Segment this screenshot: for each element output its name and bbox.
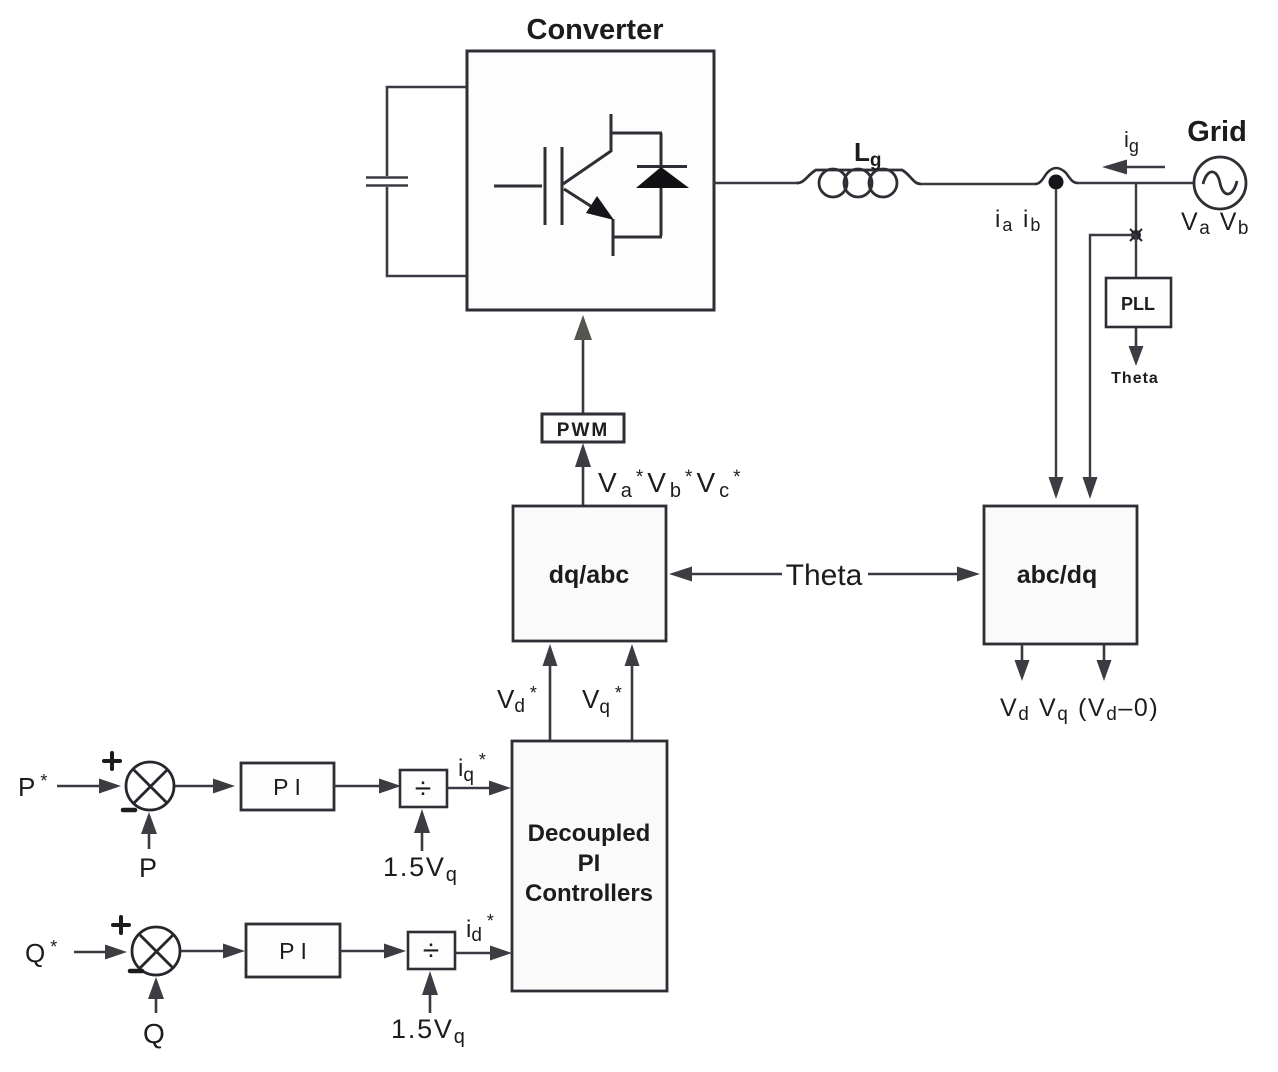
ig current arrow	[1102, 160, 1165, 175]
PWM box	[542, 414, 624, 442]
svg-text:PLL: PLL	[1121, 294, 1155, 314]
PI controller box PI2	[246, 924, 340, 977]
arrow dq/abc to PWM	[575, 443, 591, 506]
svg-text:÷: ÷	[415, 772, 431, 805]
capacitor C1	[366, 87, 466, 276]
feedback arrow Q	[148, 977, 164, 1013]
wire node ia ib down to abc/dq	[1055, 189, 1057, 481]
svg-text:PWM: PWM	[557, 420, 609, 441]
PI controller box PI1	[241, 763, 334, 810]
converter box U1	[467, 51, 714, 310]
svg-text:P I: P I	[279, 938, 307, 964]
arrowhead vab into abc/dq	[1083, 477, 1098, 499]
wire inductor to node	[920, 183, 1036, 185]
wire S1 to PI1	[175, 779, 235, 794]
Theta bus arrowhead right	[957, 567, 980, 582]
wire tap horizontal to measurement	[1090, 235, 1136, 481]
feedback arrow P	[141, 812, 157, 849]
junction node vab tap	[1131, 230, 1141, 240]
svg-text:Theta: Theta	[786, 559, 863, 592]
Decoupled PI Controllers block	[512, 741, 667, 991]
arrow PWM to converter	[574, 315, 592, 414]
wire node to grid	[1078, 182, 1195, 184]
svg-text:Controllers: Controllers	[525, 880, 653, 907]
node dot ia ib	[1049, 175, 1064, 190]
svg-text:Q: Q	[143, 1018, 165, 1049]
plus sign S2	[113, 917, 129, 933]
svg-text:Grid: Grid	[1187, 116, 1247, 148]
summing junction S1	[126, 762, 174, 810]
wire PI1 to divider	[334, 779, 401, 794]
minus sign S1	[123, 808, 135, 813]
wire PI2 to divider	[340, 944, 406, 959]
arrow 1.5Vq into DIV1	[414, 809, 430, 851]
svg-text:P: P	[139, 853, 157, 883]
plus sign S1	[104, 753, 120, 769]
svg-text:dq/abc: dq/abc	[549, 561, 630, 589]
wire Q* to summing junction	[74, 945, 127, 960]
arrow abc/dq output Vq	[1097, 644, 1112, 681]
summing junction S2	[132, 927, 180, 975]
arrow PLL to Theta	[1129, 327, 1144, 366]
wire P* to summing junction	[57, 779, 121, 794]
svg-text:÷: ÷	[423, 934, 439, 967]
wire DIV2 to decoupled block	[455, 946, 512, 961]
svg-text:abc/dq: abc/dq	[1017, 561, 1098, 589]
arrow 1.5Vq into DIV2	[422, 971, 438, 1013]
node junction hop	[1035, 168, 1078, 184]
Theta bus arrowhead left	[669, 567, 692, 582]
svg-text:Theta: Theta	[1111, 370, 1159, 387]
minus sign S2	[130, 969, 142, 974]
svg-text:Decoupled: Decoupled	[528, 820, 651, 847]
wire Vq* into dq/abc	[625, 644, 640, 741]
wire S2 to PI2	[181, 944, 245, 959]
wire tap to PLL	[1135, 235, 1137, 278]
grid source G1	[1194, 157, 1246, 209]
wire converter to inductor	[714, 182, 799, 184]
dq/abc block	[513, 506, 666, 641]
abc/dq block	[984, 506, 1137, 644]
wire Vd* into dq/abc	[543, 644, 558, 741]
inductor Lg	[797, 169, 921, 197]
PLL box	[1106, 278, 1171, 327]
diode D1 triangle	[636, 167, 689, 188]
svg-text:PI: PI	[578, 850, 601, 877]
Theta bus wire	[688, 573, 960, 576]
diode D1	[637, 133, 687, 236]
svg-text:P I: P I	[273, 774, 301, 800]
arrow abc/dq output Vd	[1015, 644, 1030, 681]
transistor Q1 (IGBT)	[494, 114, 662, 256]
emitter arrowhead of Q1	[586, 196, 614, 220]
wire grid tap down	[1135, 183, 1137, 235]
divider box DIV2	[408, 932, 455, 969]
arrowhead ia ib into abc/dq	[1049, 477, 1064, 499]
wire DIV1 to decoupled block	[447, 781, 511, 796]
svg-text:Converter: Converter	[527, 14, 664, 46]
divider box DIV1	[400, 770, 447, 807]
